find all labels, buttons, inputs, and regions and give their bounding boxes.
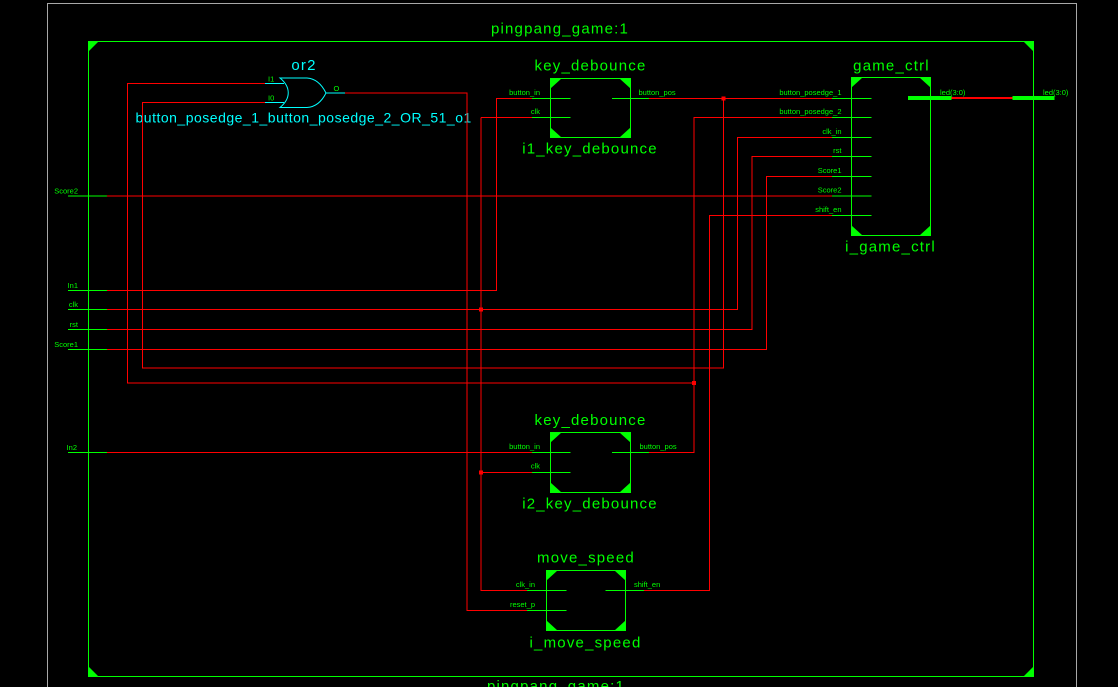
svg-text:Score1: Score1 xyxy=(818,166,842,175)
svg-text:button_posedge_2: button_posedge_2 xyxy=(779,107,841,116)
junction xyxy=(692,381,696,385)
svg-text:button_in: button_in xyxy=(509,88,540,97)
input port In1 xyxy=(68,281,107,291)
svg-text:button_pos: button_pos xyxy=(640,442,677,451)
module i1_key_debounce (key_debounce) xyxy=(509,58,676,158)
svg-text:O: O xyxy=(334,84,340,93)
corner mark bottom-left xyxy=(89,667,99,677)
svg-text:i1_key_debounce: i1_key_debounce xyxy=(522,141,658,158)
module i_move_speed (move_speed) xyxy=(510,550,660,652)
pin I0 stub xyxy=(265,102,284,104)
svg-text:led(3:0): led(3:0) xyxy=(940,88,966,97)
corner mark bottom-right xyxy=(1024,667,1034,677)
svg-text:key_debounce: key_debounce xyxy=(535,58,647,75)
pin rst xyxy=(832,156,872,158)
wire clk branch to i1/i2/move_speed xyxy=(481,117,532,119)
svg-text:In1: In1 xyxy=(68,281,78,290)
pin led(3:0) bus stub xyxy=(908,96,952,100)
svg-text:pingpang_game:1: pingpang_game:1 xyxy=(487,678,625,687)
input port In2 xyxy=(67,443,107,453)
module i_game_ctrl (game_ctrl) xyxy=(779,58,966,256)
svg-text:I1: I1 xyxy=(268,75,274,84)
svg-text:button_posedge_1_button_posedg: button_posedge_1_button_posedge_2_OR_51_… xyxy=(136,110,472,126)
pin button_in xyxy=(532,452,571,454)
corner mark top-left xyxy=(89,42,99,52)
svg-text:i_game_ctrl: i_game_ctrl xyxy=(845,239,936,256)
svg-text:shift_en: shift_en xyxy=(634,580,660,589)
pin clk_in xyxy=(527,590,567,592)
svg-text:Score2: Score2 xyxy=(818,186,842,195)
pin reset_p xyxy=(527,610,567,612)
top-level module box pingpang_game xyxy=(89,42,1034,677)
pin button_pos xyxy=(612,452,649,454)
svg-text:Score1: Score1 xyxy=(54,340,78,349)
input port Score2 xyxy=(54,187,107,197)
pin shift_en xyxy=(832,215,872,217)
wire clk main run xyxy=(107,138,832,310)
net led(3:0): outer green bus segment crossing border xyxy=(1013,96,1055,100)
junction xyxy=(722,97,726,101)
net button_posedge_2: i2.button_pos -> game_ctrl + or2.I1 xyxy=(128,84,833,453)
input port Score1 xyxy=(54,340,107,350)
svg-text:rst: rst xyxy=(833,146,842,155)
corner marks xyxy=(551,433,562,443)
svg-text:led(3:0): led(3:0) xyxy=(1043,88,1069,97)
svg-text:button_posedge_1: button_posedge_1 xyxy=(779,88,841,97)
pin button_posedge_2 xyxy=(832,117,872,119)
pin shift_en xyxy=(606,590,645,592)
svg-text:pingpang_game:1: pingpang_game:1 xyxy=(491,21,629,38)
svg-text:shift_en: shift_en xyxy=(815,205,841,214)
svg-text:clk: clk xyxy=(531,462,540,471)
pin button_in xyxy=(532,98,571,100)
svg-text:Score2: Score2 xyxy=(54,187,78,196)
wire xyxy=(128,84,695,384)
net clk xyxy=(107,118,832,591)
net led(3:0): red bus segment xyxy=(952,97,1013,99)
svg-text:move_speed: move_speed xyxy=(537,550,635,567)
net shift_en: move_speed.shift_en -> game_ctrl.shift_en xyxy=(644,216,832,591)
svg-text:or2: or2 xyxy=(291,57,316,74)
corner marks xyxy=(551,79,562,89)
net rst -> game_ctrl.rst xyxy=(107,157,832,330)
net Score2 -> game_ctrl.Score2 xyxy=(107,195,832,197)
net Score1 -> game_ctrl.Score1 xyxy=(107,177,832,350)
input port rst xyxy=(68,320,107,330)
pin clk xyxy=(532,472,571,474)
svg-text:i_move_speed: i_move_speed xyxy=(530,635,642,652)
junction xyxy=(479,308,483,312)
svg-text:I0: I0 xyxy=(268,94,274,103)
svg-text:game_ctrl: game_ctrl xyxy=(853,58,930,75)
wire xyxy=(143,99,724,369)
module i2_key_debounce (key_debounce) xyxy=(509,412,677,513)
pin button_pos xyxy=(612,98,649,100)
pin Score1 xyxy=(832,176,872,178)
net or2.O -> move_speed.reset_p xyxy=(345,93,527,611)
svg-text:button_in: button_in xyxy=(509,442,540,451)
net button_posedge_1: i1.button_pos -> game_ctrl + or2.I0 xyxy=(143,97,833,369)
corner marks xyxy=(547,571,558,581)
svg-text:In2: In2 xyxy=(67,443,77,452)
svg-text:clk: clk xyxy=(69,300,78,309)
pin Score2 xyxy=(832,195,872,197)
svg-text:clk: clk xyxy=(531,107,540,116)
svg-text:clk_in: clk_in xyxy=(516,580,535,589)
junction xyxy=(479,471,483,475)
svg-text:reset_p: reset_p xyxy=(510,600,535,609)
pin clk xyxy=(532,117,571,119)
svg-text:clk_in: clk_in xyxy=(822,127,841,136)
pin button_posedge_1 xyxy=(832,98,872,100)
pin O stub xyxy=(326,92,345,94)
pin I1 stub xyxy=(265,83,284,85)
svg-text:key_debounce: key_debounce xyxy=(535,412,647,429)
or-gate or2 (U: button_posedge_1_button_posedge_2_OR_51_o1) xyxy=(136,57,472,126)
net In2 -> i2.button_in xyxy=(107,452,532,454)
input port clk xyxy=(68,300,107,310)
net In1 -> i1.button_in xyxy=(107,99,532,291)
svg-text:rst: rst xyxy=(70,320,79,329)
corner marks xyxy=(852,78,863,88)
corner mark top-right xyxy=(1024,42,1034,52)
wire xyxy=(649,118,832,453)
svg-text:i2_key_debounce: i2_key_debounce xyxy=(522,496,658,513)
wire xyxy=(649,98,832,100)
svg-text:button_pos: button_pos xyxy=(639,88,676,97)
pin clk_in xyxy=(832,137,872,139)
